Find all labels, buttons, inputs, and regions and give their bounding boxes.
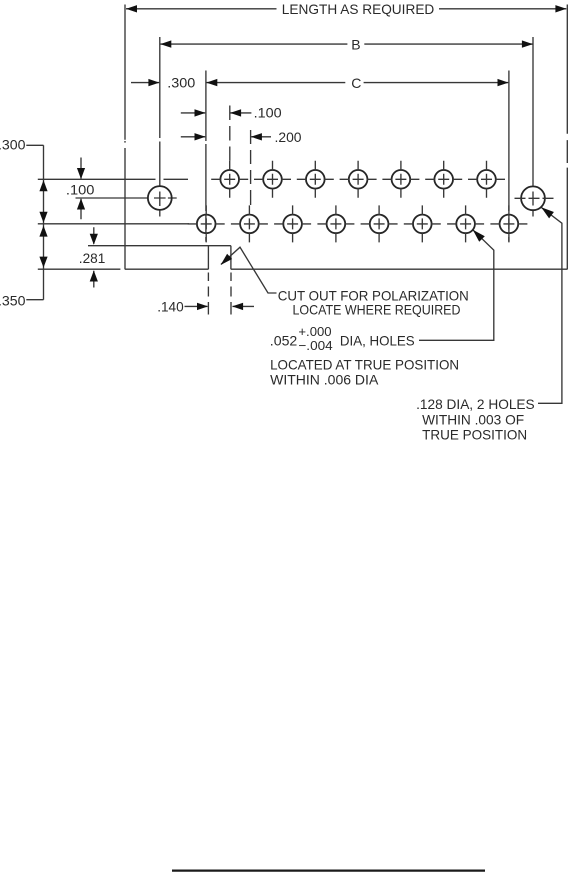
svg-text:DIA, HOLES: DIA, HOLES	[340, 332, 415, 348]
hole row1 c7	[477, 170, 496, 189]
holes	[148, 170, 545, 233]
wire: dashed extension to row2 hole2 x=250.6	[250, 130, 252, 205]
arrowheads	[39, 5, 566, 310]
leader: cutout polarization note	[221, 247, 277, 293]
arrowhead .200 top right-pointing	[195, 133, 206, 140]
crosshair big hole right horizontal	[515, 197, 554, 199]
wire: dashed extension below notch x=231	[230, 273, 232, 315]
dimension .281 arrows x=93.8	[93, 227, 95, 287]
arrowhead .300 top	[148, 79, 159, 86]
hole row1 c5	[392, 170, 411, 189]
hole row1 c4	[349, 170, 368, 189]
svg-text:.281: .281	[79, 250, 106, 266]
hole row1 c1	[220, 170, 239, 189]
svg-text:.128 DIA, 2 HOLES: .128 DIA, 2 HOLES	[416, 396, 535, 412]
svg-text:.100: .100	[66, 182, 95, 198]
arrowhead cutout leader	[221, 254, 233, 265]
wire: extension line B left / big hole L vertical centerline x=159.8	[159, 37, 161, 217]
svg-text:WITHIN .006 DIA: WITHIN .006 DIA	[270, 372, 379, 388]
hole crosshairs	[188, 161, 554, 243]
node: big hole L horizontal centerline y=198	[76, 197, 177, 199]
svg-text:.200: .200	[275, 129, 302, 145]
svg-text:B: B	[351, 37, 360, 53]
arrowhead .100 top right-pointing	[195, 109, 206, 116]
dimension .140 arrows y=306.4	[185, 305, 255, 307]
wire: cutout notch left edge x=208.4	[207, 246, 209, 270]
crosshair row1	[211, 161, 248, 198]
svg-text:.052: .052	[270, 332, 298, 348]
arrowhead .100 left up	[77, 199, 85, 210]
dimension line LENGTH AS REQUIRED y=8.8	[126, 8, 566, 10]
svg-text:.300: .300	[0, 137, 26, 153]
node: row1 centerline extension y=179.3	[38, 178, 188, 180]
arrowhead .140 left-pointing	[232, 303, 243, 310]
arrowhead C right	[498, 79, 509, 86]
leader: .128 dia note	[538, 208, 562, 404]
big hole left .128	[148, 186, 172, 210]
arrowhead .281 up	[90, 271, 98, 282]
dimension chain vertical x=43.5 left column	[26, 145, 43, 299]
arrowhead chain up 2	[39, 226, 47, 237]
arrowhead .100 top left-pointing	[230, 109, 241, 116]
wire: extension line B right / big hole R vertical centerline x=533	[532, 37, 534, 217]
arrowhead B left	[160, 40, 171, 47]
dimension line C y=82.6	[207, 82, 509, 84]
arrowhead .200 top left-pointing	[251, 133, 262, 140]
big hole right .128	[521, 186, 545, 210]
arrowhead chain up 1	[39, 180, 47, 191]
arrowhead .140 right-pointing	[197, 303, 208, 310]
hole row1 c3	[306, 170, 325, 189]
arrowhead .052 leader	[473, 230, 485, 242]
wire: extension line left part edge x=125	[124, 5, 126, 270]
wire: right part edge x=567.3	[566, 5, 568, 270]
wire: extension line C left x=205.9	[205, 71, 207, 242]
arrowhead .128 leader	[541, 207, 554, 218]
wire: dashed extension to row1 hole1 x=229.8	[229, 106, 231, 161]
svg-text:.140: .140	[157, 298, 184, 314]
hole row1 c6	[434, 170, 453, 189]
wire: part bottom edge y=269.2	[38, 268, 568, 270]
crosshair row2	[188, 205, 225, 242]
bottom rule	[172, 869, 485, 871]
svg-text:.350: .350	[0, 292, 26, 308]
hole row2 c6	[413, 215, 432, 234]
hole row2 c8	[500, 215, 519, 234]
svg-text:LOCATED AT TRUE POSITION: LOCATED AT TRUE POSITION	[270, 357, 459, 373]
arrowhead LENGTH left	[126, 5, 137, 12]
svg-text:+.000: +.000	[298, 324, 331, 339]
svg-text:TRUE POSITION: TRUE POSITION	[422, 427, 527, 443]
hole row2 c3	[283, 215, 302, 234]
hole row2 c7	[456, 215, 475, 234]
wire: extension line C right x=508.9	[508, 71, 510, 242]
dimension .300 top leader arrow	[131, 82, 159, 84]
wire: cutout notch right edge x=230.9	[230, 246, 232, 270]
dimension .200 top y=136.8	[181, 136, 271, 138]
wire: dashed extension below notch x=208.4	[207, 273, 209, 315]
leader: .052 dia holes note	[419, 230, 494, 340]
arrowhead chain down 1	[39, 212, 47, 223]
hole row2 c1	[197, 215, 216, 234]
svg-text:WITHIN .003 OF: WITHIN .003 OF	[422, 412, 524, 428]
hole row2 c4	[327, 215, 346, 234]
dimension .100 left arrows x=81	[80, 158, 82, 220]
svg-text:C: C	[351, 75, 361, 91]
arrowhead B right	[522, 40, 533, 47]
svg-text:.100: .100	[254, 105, 282, 121]
hole row2 c2	[240, 215, 259, 234]
hole row2 c5	[370, 215, 389, 234]
arrowhead chain down 2	[39, 257, 47, 268]
arrowhead .100 left down	[77, 168, 85, 179]
arrowhead LENGTH right	[555, 5, 566, 12]
node: cutout depth line y=245.7	[88, 245, 231, 247]
dimension line B y=44.1	[161, 43, 533, 45]
node: row2 centerline extension y=223.8	[38, 223, 189, 225]
arrowhead C left	[206, 79, 217, 86]
svg-text:.300: .300	[167, 75, 195, 91]
svg-text:−.004: −.004	[298, 338, 332, 353]
arrowhead .281 down	[90, 234, 98, 245]
hole row1 c2	[263, 170, 282, 189]
svg-text:LOCATE WHERE REQUIRED: LOCATE WHERE REQUIRED	[293, 301, 461, 317]
svg-text:LENGTH AS REQUIRED: LENGTH AS REQUIRED	[282, 1, 435, 17]
dimension .100 top y=112.9	[181, 112, 252, 114]
